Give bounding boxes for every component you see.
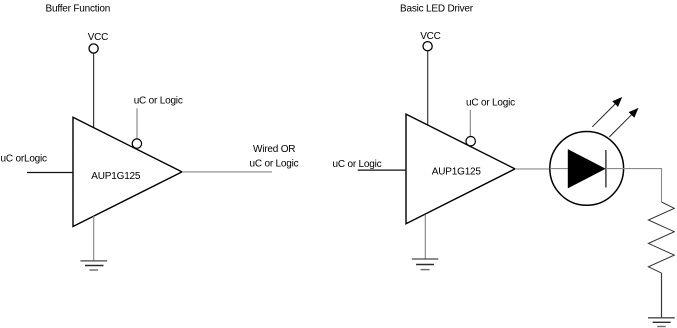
OE bubble (right) bbox=[466, 137, 475, 146]
ground symbol (right buffer) bbox=[412, 259, 439, 270]
figure title: Basic LED Driver bbox=[400, 4, 474, 15]
LED D1 envelope circle bbox=[550, 132, 624, 206]
wire input (right) bbox=[358, 169, 407, 171]
svg-text:Buffer Function: Buffer Function bbox=[46, 4, 111, 15]
wire VCC to buffer supply pin (right) bbox=[427, 51, 429, 125]
ground symbol (left) bbox=[80, 261, 107, 270]
wire input (left) bbox=[27, 172, 74, 174]
output label line 2: uC or Logic bbox=[250, 158, 299, 169]
svg-text:AUP1G125: AUP1G125 bbox=[91, 171, 141, 182]
wire OE control (right) bbox=[469, 110, 471, 137]
LED D1 cathode bar bbox=[605, 150, 607, 188]
buffer U1 triangle (left) bbox=[73, 117, 182, 226]
input label uC or Logic (right) bbox=[333, 159, 382, 170]
svg-text:AUP1G125: AUP1G125 bbox=[432, 166, 482, 177]
svg-text:uC or Logic: uC or Logic bbox=[466, 97, 515, 108]
svg-text:uC orLogic: uC orLogic bbox=[1, 154, 48, 165]
svg-text:uC or Logic: uC or Logic bbox=[333, 159, 382, 170]
svg-text:Basic LED Driver: Basic LED Driver bbox=[400, 4, 474, 15]
light emission arrow 2 bbox=[609, 108, 638, 137]
wire OE control (left) bbox=[136, 108, 138, 139]
svg-text:Wired OR: Wired OR bbox=[253, 144, 295, 155]
part label AUP1G125 (left) bbox=[91, 171, 141, 182]
power net label VCC (left) bbox=[88, 32, 109, 43]
power net label VCC (right) bbox=[420, 31, 441, 42]
wire buffer to ground (left) bbox=[93, 216, 95, 261]
wire LED cathode to resistor bbox=[624, 169, 662, 202]
OE bubble (left) bbox=[132, 139, 141, 148]
part label AUP1G125 (right) bbox=[432, 166, 482, 177]
VCC terminal circle (left) bbox=[89, 44, 98, 53]
input label uC orLogic (left) bbox=[1, 154, 48, 165]
wire VCC to buffer supply pin (left) bbox=[93, 53, 95, 127]
wire output (left) bbox=[182, 171, 272, 173]
svg-text:VCC: VCC bbox=[420, 31, 441, 42]
output label line 1: Wired OR bbox=[253, 144, 295, 155]
wire anode inside LED bbox=[550, 168, 569, 170]
wire output buffer to LED anode (right) bbox=[515, 168, 550, 170]
wire buffer to ground (right) bbox=[424, 215, 426, 260]
light emission arrow 1 bbox=[592, 97, 622, 127]
LED D1 diode triangle bbox=[568, 150, 604, 188]
figure title: Buffer Function bbox=[46, 4, 111, 15]
svg-text:uC or Logic: uC or Logic bbox=[250, 158, 299, 169]
svg-text:VCC: VCC bbox=[88, 32, 109, 43]
ground symbol (bottom right) bbox=[648, 318, 675, 327]
VCC terminal circle (right) bbox=[423, 42, 432, 51]
buffer U2 triangle (right) bbox=[406, 114, 515, 224]
wire cathode inside LED bbox=[606, 168, 624, 170]
control pin label uC or Logic (left OE) bbox=[134, 96, 183, 107]
control pin label uC or Logic (right OE) bbox=[466, 97, 515, 108]
resistor R1 zigzag bbox=[648, 202, 674, 273]
svg-text:uC or Logic: uC or Logic bbox=[134, 96, 183, 107]
wire resistor to ground (bottom right) bbox=[661, 273, 663, 318]
